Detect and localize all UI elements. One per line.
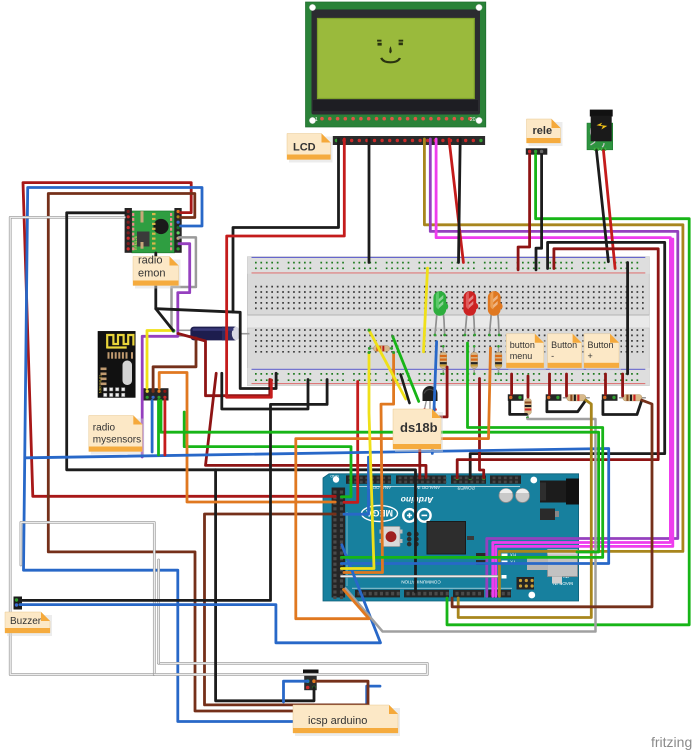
wire yellow (rail to row diagonal): [424, 268, 428, 352]
wire black (to rail): [156, 309, 276, 389]
resistor R2: [471, 345, 478, 375]
svg-text:COMMUNICATION: COMMUNICATION: [401, 580, 440, 585]
Button - connector: [546, 394, 562, 401]
Mega top pin headers: [346, 475, 391, 483]
resistor R5 (vertical, button menu pulldown): [525, 394, 532, 419]
wire dark red (rail to VIN): [480, 379, 484, 479]
wire red (emon to Mega pin): [23, 183, 335, 497]
breadboard main holes: [255, 287, 644, 352]
wire blue (bus to Mega): [344, 457, 369, 514]
label note button menu: [506, 334, 546, 371]
wire black (behind note to junction): [156, 253, 173, 330]
LED D3 orange: [488, 291, 503, 336]
label note LCD: [287, 134, 333, 163]
svg-text:fritzing: fritzing: [651, 734, 692, 750]
resistor R6 (Button - pulldown): [563, 395, 590, 401]
svg-text:-: -: [551, 351, 554, 361]
label note Buzzer: [5, 612, 52, 636]
svg-text:RFM12B: RFM12B: [134, 235, 138, 250]
wire brown (R7 to Mega): [452, 400, 652, 607]
wire dark red (resistor R5 feed): [527, 376, 530, 397]
wire red (LCD to rail diagonal): [449, 139, 463, 263]
wire white (emon left): [10, 217, 154, 674]
wire gray (R5 to Mega): [346, 419, 596, 632]
wire black (rele to rail): [536, 155, 542, 270]
svg-text:POWER: POWER: [457, 486, 475, 491]
svg-text:icsp arduino: icsp arduino: [308, 715, 367, 727]
svg-text:mysensors: mysensors: [93, 435, 141, 446]
svg-text:menu: menu: [510, 351, 533, 361]
wire orange (connector to Mega): [159, 373, 335, 503]
wire gray (emon down): [172, 237, 196, 330]
node junction: [172, 329, 176, 333]
wire purple (emon down left): [142, 244, 190, 457]
Arduino Mega board: [323, 474, 579, 601]
wire white segment: [157, 560, 160, 663]
wire green (rele to Mega): [447, 155, 689, 625]
electrolytic capacitor C1 on board: [499, 489, 513, 503]
label note ds18b: [393, 409, 443, 452]
wire dark red (Button -): [548, 374, 551, 394]
Mega left double pin header: [332, 488, 346, 598]
wire magenta 2 (to Mega): [496, 239, 673, 596]
wire blue (buzzer to Mega): [20, 545, 381, 643]
wire brown (connector to cap): [153, 338, 196, 391]
resistor R3: [495, 345, 502, 375]
USB connector: [548, 550, 578, 577]
label note radio emon: [133, 255, 181, 289]
svg-text:LCD: LCD: [293, 142, 316, 154]
wire red (rele to rail): [518, 155, 530, 270]
wire yellow (row to ds18b diagonal): [369, 330, 406, 399]
LED D1 green: [433, 291, 448, 336]
wire gold (LCD to Mega): [424, 139, 683, 596]
wire green (to Mega): [184, 412, 351, 497]
electrolytic capacitor C3: [178, 327, 250, 341]
icsp arduino connector (2x2 shown): [303, 670, 319, 691]
reset button: [382, 527, 400, 547]
wire black (Button + to R7): [603, 400, 642, 414]
Mega silkscreen texts: [330, 474, 573, 586]
wire black (Button - to R6): [547, 400, 586, 412]
svg-text:Button: Button: [551, 340, 577, 350]
svg-text:ANALOG IN: ANALOG IN: [416, 485, 440, 490]
LCD smiley face: [377, 40, 403, 64]
radio mysensors NRF24L01 module: [98, 331, 135, 397]
resistor R1: [440, 345, 447, 375]
wire black (LCD down): [233, 139, 339, 312]
wire black (breadboard vertical): [626, 263, 629, 374]
svg-text:radio: radio: [93, 423, 116, 434]
wire black (relay to rail): [597, 151, 609, 262]
wire white (mid left): [21, 522, 154, 674]
wire brown (emon loop): [48, 194, 368, 712]
svg-text:1: 1: [315, 117, 318, 123]
svg-text:radio: radio: [138, 255, 162, 267]
wire white (Mega across): [341, 575, 497, 578]
wire black (button menu to R5): [510, 401, 527, 415]
LED D2 red: [463, 291, 478, 336]
wire black (emon to Mega bottom): [67, 213, 416, 592]
DC power jack: [540, 481, 577, 503]
wire green stub (connector): [157, 401, 160, 456]
svg-text:GND: GND: [330, 474, 339, 478]
LCD pin row: [320, 117, 324, 121]
wire red stub (connector): [163, 401, 166, 456]
LCD module PCB: [306, 2, 486, 127]
voltage regulator: [540, 509, 555, 521]
wire purple (LCD to Mega): [430, 139, 678, 596]
wire dark red (resistor feed 2): [621, 374, 624, 396]
radio emon right pin header: [174, 208, 181, 253]
wire dark red (Button +): [604, 374, 607, 394]
svg-text:Arduino: Arduino: [401, 495, 435, 505]
svg-text:rele: rele: [533, 125, 553, 137]
resistor R7 (Button + pulldown): [619, 395, 646, 401]
wire black (LCD to rail diagonal): [459, 139, 461, 263]
ICSP2 header (2x3): [517, 577, 535, 590]
svg-text:button: button: [510, 340, 535, 350]
wire black (rail jumper 2): [222, 373, 308, 409]
label note Button +: [584, 334, 621, 371]
svg-text:emon: emon: [138, 268, 166, 280]
wire blue (row down to blue bus): [432, 342, 436, 454]
svg-text:Buzzer: Buzzer: [10, 616, 42, 627]
Button + connector: [602, 394, 618, 401]
wire red (LCD to rail): [227, 139, 345, 397]
wire green (connector long): [161, 401, 599, 553]
wire blue (long loop to Mega): [27, 449, 609, 564]
wire dark red (cap junction to rail): [178, 334, 270, 396]
ds18b20 temperature sensor Q1: [423, 386, 438, 411]
wire yellow (junction to connector): [147, 331, 173, 389]
wire dark red (rail to Arduino top): [206, 373, 427, 477]
wire black (to icsp): [216, 470, 314, 701]
svg-text:20: 20: [470, 117, 476, 123]
label note Button -: [548, 334, 584, 371]
ATmega2560 chip U1: [427, 522, 466, 555]
ICSP header (2x3): [407, 532, 412, 537]
wire blue (emon loop to bottom): [24, 188, 381, 722]
power pin pads: [456, 477, 459, 480]
wire black (rail to Arduino GND): [470, 242, 665, 478]
breadboard power rail holes: [255, 263, 638, 381]
wire orange (row to Mega): [344, 353, 394, 573]
wire black (ds18b): [401, 374, 410, 403]
wire dark red (row to Arduino): [420, 367, 447, 478]
button menu connector: [508, 394, 524, 401]
4-pin connector J1: [144, 388, 169, 400]
wire green (ds18b diagonal): [393, 337, 419, 402]
wire red (relay to rail): [604, 151, 616, 269]
wire brown (Mega to icsp): [205, 514, 369, 705]
LCD pin header bar: [333, 136, 485, 145]
breadboard: [248, 257, 650, 386]
rele 3-pin connector: [526, 148, 548, 154]
label note rele: [527, 119, 563, 146]
wire dark red (resistor feed): [565, 374, 568, 396]
wire black (LCD to rail 2): [368, 139, 371, 263]
wire blue (icsp): [284, 681, 308, 702]
label note icsp arduino: [293, 705, 400, 736]
wire dark red (button menu): [510, 374, 513, 394]
relay module (rele): [587, 110, 613, 151]
wire magenta (LCD to Mega): [436, 139, 670, 596]
radio emon RFM12 module: [125, 208, 182, 253]
wire white (bottom U): [154, 663, 427, 674]
wire dark red (rail to Arduino 5V): [457, 249, 658, 478]
electrolytic capacitor C2 on board: [516, 489, 530, 503]
resistor R4 (horizontal): [368, 346, 393, 352]
wire blue stub (connector): [151, 401, 154, 453]
svg-text:Button: Button: [588, 340, 614, 350]
svg-text:ds18b: ds18b: [400, 420, 438, 435]
wire red (rail to Mega): [344, 382, 358, 503]
buzzer: [14, 597, 23, 610]
wire gold (R6 to Mega): [458, 400, 591, 617]
radio emon left pin header: [125, 208, 132, 253]
svg-text:+: +: [588, 351, 593, 361]
Arduino infinity logo: [403, 509, 430, 522]
wire yellow (row to Mega): [341, 353, 374, 569]
wire green (LED to Mega): [341, 343, 602, 557]
wire black (buzzer to breadboard rail): [20, 380, 327, 601]
Mega bottom pin header: [355, 590, 400, 598]
label note radio mysensors: [89, 416, 145, 455]
wire orange (breadboard to Mega bottom): [296, 348, 491, 619]
